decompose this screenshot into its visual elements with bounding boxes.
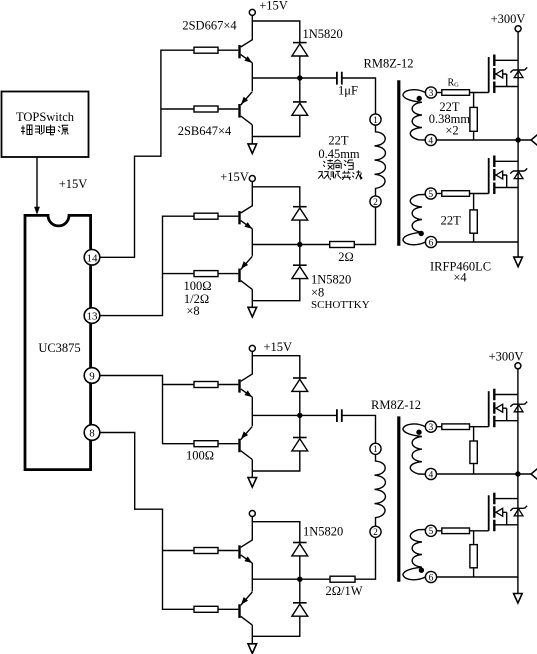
svg-text:3: 3 — [429, 89, 434, 99]
resistor gate-source 3 — [470, 441, 477, 464]
resistor base Q9 — [194, 548, 218, 554]
diode D1a 1N5820 — [292, 43, 308, 56]
label bifilar wound (CJK) — [318, 170, 362, 180]
svg-text:UC3875: UC3875 — [38, 341, 80, 355]
wire +15V rail driver4 — [252, 517, 299, 543]
svg-text:8: 8 — [89, 428, 95, 440]
svg-text:5: 5 — [429, 527, 434, 537]
wire cap to transformer T1 primary — [342, 78, 376, 114]
svg-text:2SD667×4: 2SD667×4 — [182, 18, 237, 32]
svg-text:6: 6 — [429, 238, 434, 248]
terminal 5 bottom — [425, 525, 436, 536]
wire Q10 collector to ground — [251, 625, 253, 644]
resistor 2ohm/1W — [330, 576, 355, 582]
wire terminal3 to gate resistor — [437, 92, 442, 94]
phase dot secondary 6 — [419, 231, 424, 236]
T1 secondary winding 3-4 — [403, 90, 425, 140]
wire TOPSwitch to UC3875 with arrow — [36, 157, 38, 212]
ground top right — [514, 257, 523, 267]
arrowhead into UC3875 — [34, 207, 40, 215]
resistor gate-source 2 — [470, 210, 477, 233]
capacitor C1 1uF plates — [337, 72, 342, 85]
MOSFET Q11 IRFP460LC — [489, 389, 528, 428]
wire terminal4b row to output — [437, 473, 532, 475]
+15V terminal driver3 — [249, 345, 255, 351]
resistor gate-source 1 — [470, 107, 477, 131]
terminal 6 — [425, 236, 436, 247]
resistor RG4 — [442, 528, 470, 534]
resistor base Q4 — [194, 271, 218, 277]
svg-text:9: 9 — [89, 371, 95, 383]
resistor base Q10 — [194, 606, 218, 612]
wire terminal6b row — [437, 576, 518, 578]
transistor Q7 NPN 2SD667 — [218, 355, 252, 397]
terminal 1 bottom — [370, 443, 381, 454]
+300V terminal top — [515, 26, 521, 32]
transistor Q1 NPN 2SD667 — [218, 21, 252, 63]
terminal 6 bottom — [425, 571, 436, 582]
T2 secondary winding 5-6 — [403, 530, 425, 580]
wire node to diode D1b — [299, 78, 301, 102]
svg-text:SCHOTTKY: SCHOTTKY — [311, 299, 370, 311]
svg-text:5: 5 — [428, 190, 433, 200]
svg-text:×8: ×8 — [186, 304, 199, 318]
svg-text:×2: ×2 — [445, 123, 458, 137]
ground driver1 — [248, 144, 257, 154]
+15V terminal driver4 — [249, 511, 255, 517]
ground bottom right — [514, 594, 523, 604]
svg-text:+15V: +15V — [220, 170, 249, 184]
wire diode D3a to node — [299, 391, 301, 415]
svg-text:+15V: +15V — [59, 177, 88, 191]
svg-text:14: 14 — [87, 252, 99, 264]
wire terminal3b to gate resistor — [437, 426, 442, 428]
wire +15V rail driver1 — [252, 15, 299, 42]
T1 core — [397, 80, 400, 246]
diode D3b 1N5820 — [292, 438, 308, 451]
wire RG2 to gate — [470, 193, 489, 195]
svg-text:3: 3 — [429, 423, 434, 433]
wire Q2 collector to ground — [251, 125, 253, 144]
wire emitters driver2 — [251, 229, 253, 256]
diode D2a 1N5820 — [292, 207, 308, 220]
terminal 2 bottom — [370, 526, 381, 537]
output chevron A — [531, 135, 537, 146]
transistor Q3 NPN 2SD667 — [218, 187, 252, 229]
node driver4 output — [297, 577, 302, 582]
IC U1 UC3875 body — [25, 215, 91, 469]
wire Q4 collector to ground — [251, 289, 253, 307]
wire pin8 to driver4 base junction — [100, 433, 194, 610]
label aux power (CJK) — [21, 125, 68, 135]
svg-text:+15V: +15V — [264, 340, 293, 354]
wire emitters driver3 — [251, 397, 253, 426]
resistor base Q3 — [194, 213, 218, 219]
wire +300V rail bottom — [517, 369, 519, 594]
wire to gate-source resistor 3 — [473, 427, 475, 474]
transistor Q4 PNP 2SB647 — [218, 256, 252, 289]
wire diode D2a to node — [299, 220, 301, 244]
T1 primary winding 22T — [375, 125, 386, 196]
MOSFET Q12 IRFP460LC — [489, 493, 528, 532]
resistor base Q2 — [194, 106, 218, 112]
diode D4b 1N5820 — [292, 603, 308, 616]
wire mid rail driver4 — [252, 578, 330, 580]
wire cap to transformer T2 primary — [342, 415, 376, 443]
svg-text:1: 1 — [373, 116, 378, 126]
diode D4a 1N5820 — [292, 543, 308, 556]
terminal 4 — [425, 134, 436, 145]
wire mid rail driver2 — [252, 244, 329, 246]
wire Q8 collector to ground — [251, 460, 253, 478]
wire 2ohm to transformer T1 primary terminal2 — [354, 207, 375, 245]
wire terminal5b to gate resistor 4 — [437, 530, 442, 532]
node driver3 output — [297, 413, 302, 418]
terminal 3 bottom — [425, 421, 436, 432]
transistor Q10 PNP 2SB647 — [218, 592, 252, 625]
pin 8 — [84, 425, 100, 441]
label enamel wire (CJK) — [323, 159, 354, 169]
terminal 4 bottom — [425, 468, 436, 479]
svg-text:1μF: 1μF — [338, 83, 358, 97]
output chevron B — [531, 469, 537, 480]
svg-text:1: 1 — [373, 445, 378, 455]
wire +300V rail top — [517, 32, 519, 257]
wire diode D1a to node — [299, 56, 301, 78]
T2 primary winding — [375, 454, 386, 526]
node half-bridge B — [515, 471, 520, 476]
wire pin9 to driver3 base junction — [100, 376, 194, 444]
wire diode D3b to bottom rail driver3 — [252, 451, 299, 471]
wire mid rail driver1 — [252, 77, 337, 79]
node half-bridge A — [515, 137, 520, 142]
svg-text:×4: ×4 — [453, 271, 467, 285]
terminal 2 top — [370, 196, 381, 207]
wire terminal4 row to output — [436, 139, 531, 141]
resistor base Q7 — [194, 382, 218, 388]
transistor Q9 NPN 2SD667 — [218, 521, 252, 563]
capacitor C2 plates — [337, 409, 342, 422]
svg-text:RM8Z-12: RM8Z-12 — [364, 57, 414, 71]
wire diode D4a to node — [299, 556, 301, 579]
terminal 1 top — [370, 114, 381, 125]
svg-text:22T: 22T — [441, 214, 462, 228]
svg-text:RG: RG — [448, 77, 460, 88]
wire diode D2b to bottom rail driver2 — [252, 279, 299, 301]
T1 secondary winding 5-6 — [403, 195, 425, 245]
resistor RG1 — [442, 90, 470, 96]
wire emitters driver4 — [251, 563, 253, 591]
svg-text:1N5820: 1N5820 — [303, 27, 343, 41]
+15V terminal driver2 — [249, 176, 255, 182]
phase dot secondary 3 — [417, 96, 422, 101]
pin 13 — [84, 308, 100, 324]
svg-text:1N5820: 1N5820 — [303, 524, 343, 538]
wire RG4 to gate — [470, 530, 489, 532]
wire node to diode D3b — [299, 415, 301, 437]
diode D2b 1N5820 — [292, 265, 308, 278]
wire terminal6 row — [437, 241, 518, 243]
wire RG3 to gate — [470, 426, 489, 428]
wire diode D4b to bottom rail driver4 — [252, 616, 299, 636]
svg-text:0.45mm: 0.45mm — [318, 147, 360, 161]
diode D1b 1N5820 — [292, 102, 308, 115]
wire to gate-source resistor 4 — [473, 531, 475, 577]
MOSFET Q5 IRFP460LC — [489, 55, 528, 94]
wire +15V rail driver3 — [252, 351, 299, 378]
svg-text:6: 6 — [429, 573, 434, 583]
phase dot T2 secondary 3 — [416, 430, 421, 435]
svg-text:100Ω: 100Ω — [186, 448, 214, 462]
wire mid rail driver3 — [252, 414, 337, 416]
svg-text:100Ω: 100Ω — [183, 279, 211, 293]
ground driver2 — [248, 307, 257, 317]
svg-text:+300V: +300V — [491, 12, 526, 26]
svg-text:4: 4 — [428, 136, 433, 146]
wire terminal5 to gate resistor 2 — [436, 193, 441, 195]
svg-text:RM8Z-12: RM8Z-12 — [371, 398, 421, 412]
wire node to diode D4b — [299, 579, 301, 603]
svg-text:TOPSwitch: TOPSwitch — [16, 110, 75, 124]
diode D3a 1N5820 — [292, 378, 308, 391]
wire emitters driver1 — [251, 63, 253, 91]
MOSFET Q6 IRFP460LC — [489, 156, 528, 195]
wire 2ohm1W to transformer T2 primary terminal2 — [355, 537, 376, 579]
svg-text:2: 2 — [373, 198, 378, 208]
wire node to diode D2b — [299, 245, 301, 266]
+15V terminal driver1 — [249, 9, 255, 15]
resistor 2 ohm — [330, 242, 355, 248]
node driver2 output — [297, 242, 302, 247]
resistor base Q1 — [194, 47, 218, 53]
wire pin13 to driver2 base junction — [100, 216, 194, 315]
svg-text:1N5820: 1N5820 — [311, 273, 351, 287]
wire to gate-source resistor 1 — [473, 93, 475, 141]
T2 core — [397, 416, 400, 581]
transistor Q2 PNP 2SB647 — [218, 92, 252, 125]
svg-text:×8: ×8 — [311, 286, 324, 300]
wire RG1 to gate — [470, 92, 489, 94]
svg-text:4: 4 — [429, 470, 434, 480]
svg-text:+300V: +300V — [489, 350, 524, 364]
wire diode D1b to bottom rail driver1 — [252, 115, 299, 136]
resistor base Q8 — [194, 441, 218, 447]
wire +15V rail driver2 — [252, 182, 299, 207]
T2 secondary winding 3-4 — [403, 424, 425, 474]
node driver1 output — [297, 75, 302, 80]
wire pin14 to driver1 base junction — [100, 50, 194, 257]
resistor RG3 — [442, 424, 470, 430]
terminal 5 — [425, 188, 436, 199]
svg-text:2Ω: 2Ω — [338, 250, 354, 264]
svg-text:2SB647×4: 2SB647×4 — [178, 124, 232, 138]
phase dot T2 secondary 6 — [419, 568, 424, 573]
pin 14 — [84, 249, 100, 265]
transistor Q8 PNP 2SB647 — [218, 426, 252, 459]
pin 9 — [84, 368, 100, 384]
resistor RG2 — [442, 191, 470, 197]
svg-text:13: 13 — [87, 311, 99, 323]
svg-text:2: 2 — [373, 528, 378, 538]
terminal 3 — [425, 87, 436, 98]
svg-text:22T: 22T — [328, 134, 349, 148]
svg-text:+15V: +15V — [259, 0, 288, 13]
ground driver4 — [248, 644, 257, 654]
+300V terminal bottom — [515, 363, 521, 369]
ground driver3 — [248, 478, 257, 488]
TOPSwitch auxiliary supply box — [2, 92, 89, 158]
svg-text:2Ω/1W: 2Ω/1W — [325, 584, 362, 598]
wire to gate-source resistor 2 — [473, 194, 475, 243]
resistor gate-source 4 — [470, 545, 477, 568]
